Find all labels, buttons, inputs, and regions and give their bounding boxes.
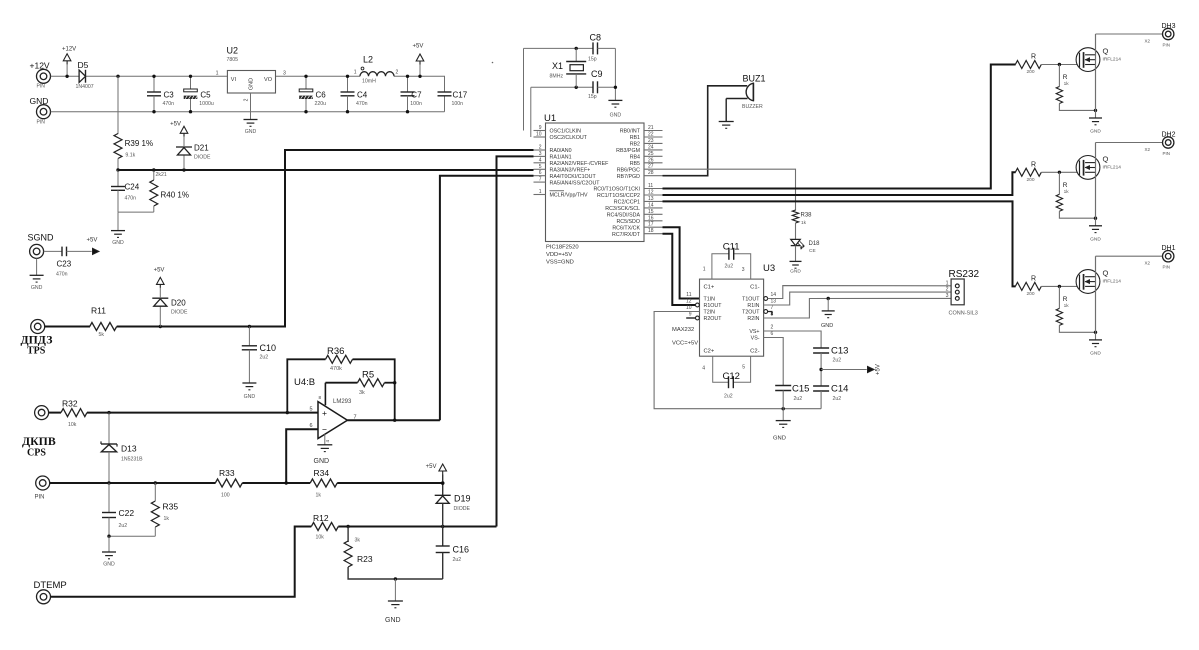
svg-text:DH1: DH1	[1162, 245, 1176, 252]
svg-text:1N4007: 1N4007	[76, 84, 94, 90]
svg-text:PIN: PIN	[35, 495, 45, 501]
svg-text:RB7/PGD: RB7/PGD	[617, 174, 640, 180]
svg-text:C5: C5	[200, 91, 211, 100]
svg-text:GND: GND	[1090, 350, 1101, 356]
svg-text:RC1/T1OSI/CCP2: RC1/T1OSI/CCP2	[597, 193, 640, 199]
svg-text:+12V: +12V	[62, 47, 76, 53]
svg-text:470n: 470n	[125, 196, 137, 202]
svg-text:GND: GND	[245, 129, 257, 135]
svg-text:VSS=GND: VSS=GND	[546, 260, 574, 266]
svg-text:OSC1/CLKIN: OSC1/CLKIN	[550, 129, 582, 135]
svg-text:T2IN: T2IN	[704, 310, 716, 316]
svg-text:IRFL214: IRFL214	[1103, 279, 1122, 285]
svg-text:470k: 470k	[330, 366, 342, 372]
svg-text:1k: 1k	[801, 220, 807, 226]
svg-text:2: 2	[539, 145, 542, 151]
svg-text:RA1/AN1: RA1/AN1	[550, 155, 572, 161]
svg-text:RC2/CCP1: RC2/CCP1	[614, 200, 640, 206]
svg-text:RB6/PGC: RB6/PGC	[617, 167, 640, 173]
svg-text:2u2: 2u2	[260, 355, 269, 361]
svg-text:T1IN: T1IN	[704, 297, 716, 303]
svg-text:RA3/AN3/VREF+: RA3/AN3/VREF+	[550, 168, 591, 174]
svg-text:21: 21	[648, 125, 654, 131]
svg-text:+5V: +5V	[426, 464, 437, 470]
svg-text:R: R	[1031, 275, 1036, 282]
svg-text:LM293: LM293	[333, 399, 352, 405]
svg-text:2: 2	[946, 287, 949, 293]
svg-text:OSC2/CLKOUT: OSC2/CLKOUT	[550, 135, 588, 141]
svg-text:2u2: 2u2	[725, 264, 734, 270]
svg-text:C9: C9	[591, 69, 603, 79]
svg-text:R5: R5	[362, 370, 374, 381]
svg-text:C2+: C2+	[704, 349, 715, 355]
svg-text:3: 3	[742, 267, 745, 273]
svg-text:26: 26	[648, 157, 654, 163]
svg-text:15p: 15p	[588, 94, 597, 100]
svg-text:2u2: 2u2	[833, 396, 842, 402]
svg-text:T1OUT: T1OUT	[742, 297, 760, 303]
svg-text:PIN: PIN	[37, 120, 46, 126]
svg-text:R11: R11	[91, 306, 106, 316]
svg-text:MAX232: MAX232	[672, 327, 694, 333]
svg-text:10: 10	[686, 305, 692, 311]
svg-text:24: 24	[648, 144, 654, 150]
svg-text:RB0/INT: RB0/INT	[620, 129, 641, 135]
svg-text:6: 6	[539, 170, 542, 176]
svg-text:1k: 1k	[1064, 189, 1070, 195]
svg-text:U2: U2	[227, 46, 239, 56]
svg-text:CONN-SIL3: CONN-SIL3	[949, 311, 978, 317]
svg-text:5: 5	[539, 164, 542, 170]
svg-text:RB5: RB5	[630, 161, 640, 167]
svg-text:Q: Q	[1103, 47, 1109, 56]
svg-text:C15: C15	[792, 384, 809, 395]
svg-text:L2: L2	[363, 55, 373, 65]
svg-text:C13: C13	[831, 346, 848, 357]
svg-text:X2: X2	[1145, 39, 1151, 44]
svg-text:C7: C7	[411, 91, 422, 100]
svg-text:2u2: 2u2	[453, 557, 462, 563]
svg-text:C1+: C1+	[704, 285, 715, 291]
svg-text:9: 9	[689, 311, 692, 317]
svg-text:GND: GND	[112, 240, 124, 246]
svg-text:+5V: +5V	[413, 44, 424, 50]
svg-text:1000u: 1000u	[199, 101, 214, 107]
svg-text:10k: 10k	[316, 535, 325, 541]
svg-text:R1OUT: R1OUT	[704, 303, 723, 309]
svg-text:1: 1	[216, 71, 219, 77]
svg-text:7805: 7805	[227, 57, 239, 63]
svg-text:C22: C22	[119, 508, 135, 518]
svg-text:R35: R35	[163, 502, 179, 512]
svg-text:1N5231B: 1N5231B	[121, 457, 143, 463]
svg-text:CE: CE	[809, 248, 816, 254]
svg-text:R: R	[1031, 54, 1036, 61]
svg-text:1: 1	[946, 280, 949, 286]
svg-text:D19: D19	[454, 494, 471, 504]
svg-text:RS232: RS232	[949, 269, 980, 280]
svg-text:X2: X2	[1145, 261, 1151, 266]
svg-text:GND: GND	[1090, 129, 1101, 135]
svg-text:U1: U1	[544, 113, 556, 124]
svg-text:15: 15	[648, 209, 654, 215]
svg-text:5k: 5k	[99, 332, 105, 338]
svg-text:DIODE: DIODE	[194, 155, 211, 161]
svg-text:14: 14	[771, 292, 777, 298]
svg-text:C10: C10	[260, 343, 277, 353]
svg-text:RB4: RB4	[630, 155, 640, 161]
svg-text:BUZZER: BUZZER	[742, 104, 763, 110]
svg-text:R: R	[1063, 74, 1068, 81]
svg-text:Q: Q	[1103, 268, 1109, 277]
svg-text:R36: R36	[327, 346, 344, 357]
svg-text:RC0/T1OSO/T1CKI: RC0/T1OSO/T1CKI	[593, 187, 640, 193]
svg-text:1k: 1k	[1064, 303, 1070, 309]
svg-text:PIC18F2520: PIC18F2520	[546, 245, 579, 251]
svg-text:2u2: 2u2	[833, 358, 842, 364]
svg-text:TPS: TPS	[27, 346, 46, 357]
svg-text:RC4/SDI/SDA: RC4/SDI/SDA	[607, 213, 641, 219]
svg-text:DH2: DH2	[1162, 132, 1176, 139]
svg-text:470n: 470n	[163, 101, 175, 107]
svg-text:RC3/SCK/SCL: RC3/SCK/SCL	[605, 206, 640, 212]
svg-text:R38: R38	[801, 213, 813, 219]
svg-text:200: 200	[1027, 177, 1035, 183]
svg-text:10: 10	[536, 132, 542, 138]
svg-text:D20: D20	[171, 299, 186, 308]
svg-text:VI: VI	[231, 77, 237, 83]
svg-text:4: 4	[702, 366, 705, 372]
svg-text:VDD=+5V: VDD=+5V	[546, 252, 572, 258]
svg-text:R40 1%: R40 1%	[161, 191, 189, 200]
svg-text:4: 4	[539, 157, 542, 163]
svg-text:22: 22	[648, 132, 654, 138]
svg-text:2: 2	[771, 325, 774, 331]
svg-text:28: 28	[648, 170, 654, 176]
svg-text:1: 1	[354, 70, 357, 76]
svg-text:17: 17	[648, 222, 654, 228]
svg-text:R34: R34	[314, 468, 330, 478]
svg-text:VCC=+5V: VCC=+5V	[672, 341, 698, 347]
svg-text:RA5/AN4/SS/C2OUT: RA5/AN4/SS/C2OUT	[550, 180, 601, 186]
svg-text:GND: GND	[31, 285, 43, 291]
svg-text:D21: D21	[194, 144, 209, 153]
svg-text:GND: GND	[773, 436, 786, 442]
svg-text:12: 12	[648, 190, 654, 196]
svg-text:GND: GND	[821, 323, 833, 329]
svg-text:D5: D5	[78, 60, 89, 70]
svg-text:VS+: VS+	[749, 329, 759, 335]
svg-text:220u: 220u	[315, 101, 327, 107]
svg-text:2: 2	[396, 70, 399, 76]
svg-text:2k21: 2k21	[156, 172, 167, 178]
svg-text:ДПДЗ: ДПДЗ	[21, 333, 53, 347]
svg-text:6: 6	[309, 423, 312, 429]
svg-text:25: 25	[648, 151, 654, 157]
svg-text:GND: GND	[610, 112, 622, 118]
svg-text:8MHz: 8MHz	[550, 74, 564, 80]
svg-text:18: 18	[648, 228, 654, 234]
svg-text:PIN: PIN	[37, 84, 46, 90]
svg-text:C16: C16	[453, 545, 470, 555]
svg-text:3: 3	[539, 151, 542, 157]
svg-text:R33: R33	[219, 468, 235, 478]
svg-text:U4:B: U4:B	[294, 377, 315, 388]
svg-text:200: 200	[1027, 291, 1035, 297]
svg-text:R2OUT: R2OUT	[704, 316, 723, 322]
svg-text:C1-: C1-	[750, 285, 759, 291]
svg-text:+5V: +5V	[154, 268, 165, 274]
svg-text:PIN: PIN	[1163, 43, 1171, 48]
svg-text:C24: C24	[125, 183, 140, 192]
svg-text:CPS: CPS	[27, 448, 46, 459]
svg-text:13: 13	[648, 196, 654, 202]
svg-text:X1: X1	[552, 61, 563, 71]
svg-text:RA4/T0CKI/C1OUT: RA4/T0CKI/C1OUT	[550, 174, 597, 180]
svg-text:6: 6	[771, 331, 774, 337]
svg-text:RA2/AN2/VREF-/CVREF: RA2/AN2/VREF-/CVREF	[550, 161, 610, 167]
svg-text:C14: C14	[831, 384, 848, 395]
svg-text:GND: GND	[30, 96, 49, 106]
svg-text:GND: GND	[1090, 236, 1101, 242]
svg-text:C23: C23	[57, 260, 72, 269]
svg-text:IRFL214: IRFL214	[1103, 57, 1122, 63]
svg-text:BUZ1: BUZ1	[743, 74, 766, 84]
svg-text:MCLR/Vpp/THV: MCLR/Vpp/THV	[550, 193, 588, 199]
svg-text:Q: Q	[1103, 154, 1109, 163]
svg-text:RC6/TX/CK: RC6/TX/CK	[612, 225, 640, 231]
svg-text:100n: 100n	[452, 101, 464, 107]
svg-text:+5V: +5V	[170, 122, 181, 128]
svg-text:9.1k: 9.1k	[125, 153, 135, 159]
svg-text:C4: C4	[357, 91, 368, 100]
svg-text:470n: 470n	[356, 101, 368, 107]
svg-text:DH3: DH3	[1162, 23, 1176, 30]
svg-text:7: 7	[539, 177, 542, 183]
svg-text:X2: X2	[1145, 147, 1151, 152]
svg-text:RB3/PGM: RB3/PGM	[616, 148, 640, 154]
svg-text:10k: 10k	[68, 422, 77, 428]
svg-text:R23: R23	[357, 554, 373, 564]
svg-text:GND: GND	[314, 458, 330, 465]
svg-text:11: 11	[686, 292, 691, 298]
svg-text:1: 1	[539, 189, 542, 195]
svg-text:PIN: PIN	[1163, 265, 1171, 270]
svg-text:+: +	[322, 408, 327, 418]
svg-text:3k: 3k	[355, 538, 361, 544]
svg-text:GND: GND	[385, 617, 401, 624]
svg-text:VO: VO	[264, 77, 273, 83]
svg-text:16: 16	[648, 215, 654, 221]
svg-text:12: 12	[686, 298, 692, 304]
svg-text:470n: 470n	[56, 272, 68, 278]
svg-text:R32: R32	[62, 399, 78, 409]
svg-text:C11: C11	[723, 242, 740, 253]
svg-text:2u2: 2u2	[119, 523, 128, 529]
svg-text:IRFL214: IRFL214	[1103, 165, 1122, 171]
svg-text:+5V: +5V	[876, 364, 882, 375]
svg-text:VS-: VS-	[751, 336, 760, 342]
svg-text:PIN: PIN	[1163, 151, 1171, 156]
svg-text:100n: 100n	[410, 101, 422, 107]
svg-text:RA0/AN0: RA0/AN0	[550, 148, 572, 154]
svg-text:RB2: RB2	[630, 142, 640, 148]
svg-text:14: 14	[648, 202, 654, 208]
svg-text:R2IN: R2IN	[747, 316, 759, 322]
svg-text:U3: U3	[763, 263, 775, 274]
svg-text:DTEMP: DTEMP	[34, 580, 67, 591]
svg-text:R: R	[1031, 161, 1036, 168]
svg-text:GND: GND	[790, 268, 801, 274]
svg-text:200: 200	[1027, 69, 1035, 75]
svg-text:R: R	[1063, 182, 1068, 189]
svg-text:SGND: SGND	[28, 233, 55, 243]
svg-text:3: 3	[946, 293, 949, 299]
svg-text:1k: 1k	[164, 516, 170, 522]
svg-text:GND: GND	[249, 78, 255, 90]
svg-text:10mH: 10mH	[362, 79, 376, 85]
svg-text:C12: C12	[723, 371, 740, 382]
svg-text:7: 7	[771, 305, 774, 311]
svg-text:27: 27	[648, 164, 654, 170]
svg-text:DIODE: DIODE	[454, 506, 471, 512]
svg-text:ДКПВ: ДКПВ	[22, 434, 56, 448]
svg-text:RC5/SDO: RC5/SDO	[616, 219, 640, 225]
svg-text:R1IN: R1IN	[747, 303, 759, 309]
svg-text:C6: C6	[316, 91, 327, 100]
svg-text:11: 11	[648, 183, 653, 189]
svg-text:RC7/RX/DT: RC7/RX/DT	[612, 232, 641, 238]
svg-text:C3: C3	[164, 91, 175, 100]
svg-text:+12V: +12V	[30, 61, 50, 71]
svg-text:D13: D13	[121, 444, 137, 454]
svg-text:DIODE: DIODE	[171, 310, 188, 316]
svg-text:−: −	[322, 424, 327, 434]
svg-text:R: R	[1063, 296, 1068, 303]
svg-text:13: 13	[771, 298, 777, 304]
svg-text:15p: 15p	[588, 57, 597, 63]
svg-text:2: 2	[244, 98, 250, 101]
svg-text:9: 9	[539, 125, 542, 131]
svg-text:C2-: C2-	[750, 349, 759, 355]
svg-text:1k: 1k	[1064, 81, 1070, 87]
svg-text:C17: C17	[453, 91, 468, 100]
svg-text:GND: GND	[103, 562, 115, 568]
svg-text:3k: 3k	[359, 390, 365, 396]
svg-text:23: 23	[648, 138, 654, 144]
svg-text:1k: 1k	[316, 493, 322, 499]
svg-text:R12: R12	[313, 513, 329, 523]
svg-text:5: 5	[742, 365, 745, 371]
svg-text:3: 3	[283, 71, 286, 77]
svg-text:GND: GND	[244, 394, 256, 400]
svg-text:+5V: +5V	[87, 238, 98, 244]
svg-text:2u2: 2u2	[724, 394, 733, 400]
svg-text:1: 1	[703, 267, 706, 273]
svg-text:100: 100	[221, 493, 230, 499]
svg-text:T2OUT: T2OUT	[742, 310, 760, 316]
svg-text:R39 1%: R39 1%	[125, 139, 153, 148]
svg-text:C8: C8	[590, 33, 602, 43]
svg-text:RB1: RB1	[630, 135, 640, 141]
svg-text:2u2: 2u2	[794, 396, 803, 402]
svg-text:D18: D18	[809, 241, 821, 247]
